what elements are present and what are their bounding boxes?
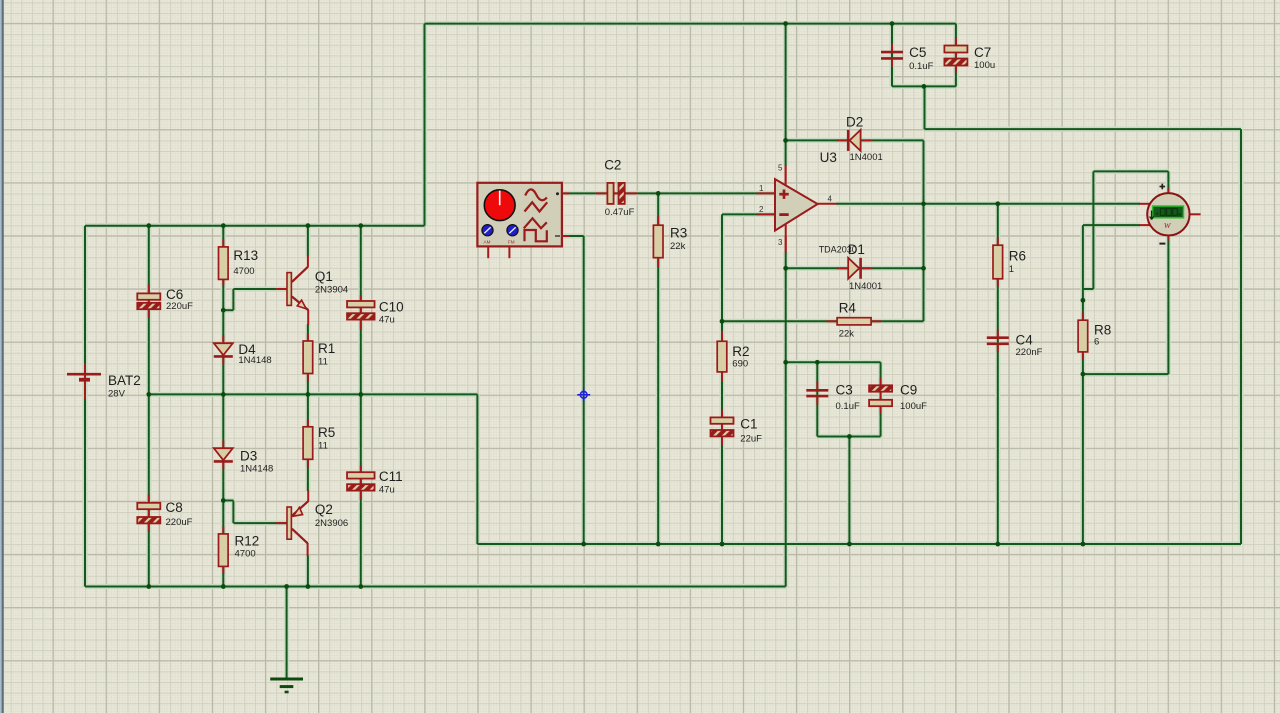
- svg-text:690: 690: [732, 359, 748, 370]
- svg-text:R13: R13: [233, 248, 258, 263]
- svg-text:C6: C6: [166, 287, 183, 302]
- svg-text:11: 11: [318, 357, 328, 368]
- svg-text:Q1: Q1: [315, 269, 333, 284]
- svg-text:2: 2: [759, 205, 764, 214]
- svg-text:R1: R1: [318, 341, 335, 356]
- svg-text:C1: C1: [740, 417, 757, 432]
- svg-text:6: 6: [1094, 336, 1099, 347]
- svg-text:C8: C8: [166, 500, 183, 515]
- svg-text:+: +: [1155, 209, 1160, 218]
- svg-text:R4: R4: [839, 301, 857, 316]
- svg-text:D3: D3: [240, 449, 257, 464]
- svg-text:R8: R8: [1094, 322, 1111, 337]
- svg-text:C5: C5: [909, 45, 926, 60]
- svg-text:100uF: 100uF: [900, 401, 927, 412]
- svg-text:22k: 22k: [839, 329, 855, 340]
- svg-text:Q2: Q2: [315, 502, 333, 517]
- svg-text:1N4001: 1N4001: [849, 281, 882, 292]
- svg-text:FM: FM: [508, 240, 515, 245]
- svg-text:47u: 47u: [379, 485, 395, 496]
- svg-text:1: 1: [759, 184, 764, 193]
- svg-text:D2: D2: [846, 115, 863, 130]
- svg-text:1: 1: [1009, 264, 1014, 275]
- svg-text:220uF: 220uF: [166, 301, 193, 312]
- svg-text:0.1uF: 0.1uF: [836, 401, 860, 412]
- svg-text:1N4148: 1N4148: [240, 464, 273, 475]
- svg-text:3: 3: [778, 238, 783, 247]
- svg-text:w: w: [1164, 220, 1171, 231]
- svg-text:4700: 4700: [235, 549, 256, 560]
- svg-text:0.47uF: 0.47uF: [605, 207, 635, 218]
- svg-text:5: 5: [778, 164, 783, 173]
- svg-text:22k: 22k: [670, 241, 686, 252]
- svg-text:R12: R12: [235, 534, 260, 549]
- svg-text:C11: C11: [379, 469, 403, 484]
- svg-text:R3: R3: [670, 226, 687, 241]
- svg-text:1N4001: 1N4001: [850, 152, 883, 163]
- svg-text:11: 11: [318, 441, 328, 452]
- svg-text:220uF: 220uF: [166, 517, 193, 528]
- svg-text:4: 4: [828, 195, 833, 204]
- svg-text:C2: C2: [604, 158, 621, 173]
- svg-text:1N4148: 1N4148: [238, 355, 271, 366]
- svg-text:C4: C4: [1016, 332, 1034, 347]
- svg-text:C3: C3: [836, 383, 853, 398]
- svg-text:R6: R6: [1009, 248, 1026, 263]
- svg-text:4700: 4700: [233, 266, 254, 277]
- svg-text:R2: R2: [732, 344, 749, 359]
- svg-text:22uF: 22uF: [740, 433, 762, 444]
- svg-text:28V: 28V: [108, 389, 126, 400]
- svg-text:U3: U3: [820, 150, 837, 165]
- svg-text:220nF: 220nF: [1016, 347, 1043, 358]
- svg-text:AM: AM: [484, 240, 491, 245]
- svg-text:47u: 47u: [379, 314, 395, 325]
- svg-text:0.1uF: 0.1uF: [909, 61, 933, 72]
- svg-text:BAT2: BAT2: [108, 373, 141, 388]
- svg-text:C10: C10: [379, 300, 404, 315]
- svg-text:100u: 100u: [974, 60, 995, 71]
- svg-text:R5: R5: [318, 425, 335, 440]
- svg-text:C7: C7: [974, 45, 991, 60]
- svg-text:2N3906: 2N3906: [315, 518, 348, 529]
- svg-text:TDA2030: TDA2030: [819, 245, 857, 255]
- svg-text:C9: C9: [900, 383, 917, 398]
- svg-text:2N3904: 2N3904: [315, 285, 348, 296]
